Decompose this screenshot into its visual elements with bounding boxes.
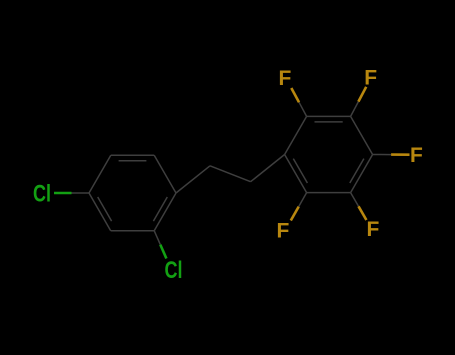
- ring1 double bond C2=C1 inner line: [153, 197, 167, 221]
- bond C4-Cl (left): [72, 192, 90, 194]
- ring1 bond C6-C5: [111, 154, 154, 156]
- chain bond CH2-ring2: [251, 155, 285, 182]
- ring1 double bond C6=C5 inner line: [119, 160, 147, 162]
- svg-text:F: F: [277, 220, 290, 243]
- ring2 double bond C2'=C3' inner line: [315, 121, 343, 123]
- ring1 bond C2-C1: [154, 193, 176, 231]
- ring2 bond C4'-C5': [351, 155, 373, 193]
- bond C6'-F (bottom-left): [299, 193, 307, 207]
- chain bond CH2-ring1: [176, 166, 210, 193]
- svg-text:Cl: Cl: [165, 257, 183, 284]
- ring2 double bond C4'=C5' inner line: [350, 159, 364, 183]
- ring1 double bond C4=C3 inner line: [98, 197, 112, 221]
- ring2 double bond C6'=C1' inner line: [293, 159, 307, 183]
- ring1 bond C1-C6: [154, 155, 176, 193]
- svg-text:F: F: [410, 144, 423, 167]
- ring2 bond C3'-C4': [351, 116, 373, 154]
- chain bond CH2-CH2: [210, 166, 251, 182]
- ring1 bond C5-C4: [89, 155, 111, 193]
- ring2 bond C6'-C1': [285, 155, 307, 193]
- ring1 bond C3-C2: [111, 230, 155, 232]
- bond C3'-F (top-right): [351, 102, 359, 117]
- ring1 bond C4-C3: [89, 193, 111, 231]
- ring2 bond C2'-C3': [307, 115, 351, 117]
- ring2 bond C1'-C2': [285, 116, 307, 154]
- bond C5'-F (bottom-right): [351, 193, 359, 207]
- svg-text:F: F: [279, 67, 292, 90]
- bond C4'-F (right): [373, 154, 392, 156]
- svg-text:F: F: [364, 66, 377, 89]
- svg-text:F: F: [367, 218, 380, 241]
- bond C2-Cl (bottom): [154, 231, 160, 245]
- ring2 bond C5'-C6': [307, 192, 351, 194]
- bond C2'-F (top-left): [299, 102, 307, 116]
- svg-text:Cl: Cl: [33, 181, 51, 208]
